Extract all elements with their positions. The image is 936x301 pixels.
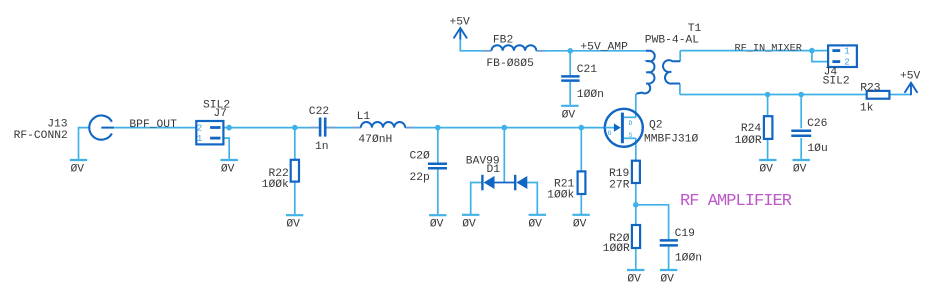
svg-text:1ØØR: 1ØØR bbox=[603, 243, 630, 255]
J7 pin 2 bar bbox=[210, 126, 220, 129]
svg-text:FB2: FB2 bbox=[493, 35, 513, 47]
transformer T1 primary winding bbox=[636, 51, 654, 94]
svg-text:1: 1 bbox=[844, 47, 849, 57]
wire Q2 drain stub bbox=[624, 116, 636, 118]
Q2 body circle bbox=[605, 109, 643, 147]
+5V left arrowhead bbox=[454, 28, 467, 38]
junction at R24 bbox=[765, 92, 771, 98]
resistor R20 bbox=[632, 225, 640, 248]
J13 body circle bbox=[89, 115, 112, 139]
power +5V symbol (right) bbox=[905, 83, 918, 95]
transistor Q2 MMBFJ310 (JFET) bbox=[605, 109, 643, 147]
wire Q2 source down to R19 bbox=[635, 138, 637, 160]
svg-text:C19: C19 bbox=[675, 228, 695, 240]
lead L1 left bbox=[352, 127, 361, 129]
Q2 gate lead bbox=[605, 127, 614, 129]
junction after J7 bbox=[226, 125, 232, 131]
wire R22 bottom bbox=[294, 182, 296, 214]
C26 top plate bbox=[791, 130, 811, 133]
T1 secondary coil tick bbox=[670, 71, 672, 73]
Q2 channel bar bbox=[621, 113, 624, 144]
svg-text:G: G bbox=[608, 130, 612, 137]
lead C22 right bbox=[327, 127, 335, 129]
svg-text:ØV: ØV bbox=[627, 274, 641, 286]
svg-text:ØV: ØV bbox=[660, 274, 674, 286]
wire R21 bottom bbox=[580, 194, 582, 214]
wire C26 top bbox=[800, 95, 802, 129]
ground D1 right bbox=[529, 214, 546, 216]
power +5V symbol (left) bbox=[454, 28, 467, 40]
D1 right diode triangle bbox=[516, 176, 527, 189]
wire +5V to FB2 bbox=[460, 39, 491, 51]
lead FB2 right bbox=[536, 50, 545, 52]
svg-text:+5V: +5V bbox=[450, 16, 471, 28]
junction at C20 bbox=[435, 125, 441, 131]
svg-text:ØV: ØV bbox=[528, 218, 542, 230]
svg-text:1ØØk: 1ØØk bbox=[547, 189, 574, 201]
resistor R23 bbox=[867, 91, 890, 99]
capacitor C21 bbox=[561, 76, 579, 80]
svg-text:RF_IN_MIXER: RF_IN_MIXER bbox=[735, 42, 802, 54]
wire R20 to ground bbox=[635, 248, 637, 269]
svg-text:C2Ø: C2Ø bbox=[410, 150, 431, 162]
svg-text:C21: C21 bbox=[577, 64, 598, 76]
svg-text:R19: R19 bbox=[609, 168, 629, 180]
J7 body bbox=[196, 121, 223, 144]
junction at R21 bbox=[579, 125, 585, 131]
ground D1 left bbox=[462, 214, 479, 216]
svg-text:ØV: ØV bbox=[793, 164, 807, 176]
wire Q2 source stub bbox=[624, 137, 636, 139]
ground C19 bbox=[660, 269, 677, 271]
svg-text:C22: C22 bbox=[309, 106, 329, 118]
wire junction to C19 bbox=[636, 205, 669, 240]
svg-text:ØV: ØV bbox=[71, 164, 85, 176]
svg-text:L1: L1 bbox=[357, 111, 371, 123]
+5V right stem bbox=[910, 83, 912, 95]
C22 left plate bbox=[319, 118, 322, 137]
wire C21 top bbox=[569, 51, 571, 75]
svg-text:MMBFJ31Ø: MMBFJ31Ø bbox=[644, 134, 698, 146]
C19 bottom plate bbox=[660, 244, 678, 247]
wire T1 secondary top riser bbox=[679, 51, 681, 62]
D1 inter-diode wire bbox=[495, 182, 516, 184]
lead C22 left bbox=[310, 127, 318, 129]
svg-text:BPF_OUT: BPF_OUT bbox=[129, 119, 177, 131]
svg-text:1ØØn: 1ØØn bbox=[675, 252, 702, 264]
svg-text:47ØnH: 47ØnH bbox=[358, 134, 392, 146]
svg-text:PWB-4-AL: PWB-4-AL bbox=[645, 35, 699, 47]
wire J13 to J7 (net BPF_OUT) bbox=[114, 127, 197, 129]
wire J4 pin2 drop bbox=[812, 51, 828, 62]
C20 top plate bbox=[428, 163, 447, 166]
wire C22 to L1 bbox=[326, 127, 361, 129]
capacitor C20 bbox=[428, 164, 447, 169]
wire J7 pin1 to ground bbox=[223, 138, 229, 159]
wire R24 top bbox=[767, 95, 769, 117]
svg-text:1: 1 bbox=[197, 134, 202, 144]
svg-text:2: 2 bbox=[844, 58, 849, 68]
svg-text:J13: J13 bbox=[47, 119, 68, 131]
connector J13 RF-CONN2 bbox=[89, 115, 114, 139]
ground R21 bbox=[572, 214, 589, 216]
resistor R21 bbox=[578, 171, 586, 194]
junction at R19/R20/C19 bbox=[633, 202, 639, 208]
ground J7 bbox=[221, 159, 238, 161]
wire D1 right to ground bbox=[527, 183, 537, 215]
+5V right arrowhead bbox=[905, 83, 918, 93]
svg-text:ØV: ØV bbox=[759, 164, 773, 176]
svg-text:SIL2: SIL2 bbox=[823, 76, 850, 88]
svg-text:22p: 22p bbox=[410, 172, 431, 184]
junction at C26 bbox=[798, 92, 804, 98]
ground C26 bbox=[793, 159, 810, 161]
junction at J4 bbox=[809, 48, 815, 54]
resistor R19 bbox=[632, 161, 640, 183]
resistor R22 bbox=[291, 160, 299, 182]
C22 right plate bbox=[324, 118, 327, 137]
wire Q2 drain up to T1 bbox=[635, 94, 637, 117]
J7 pin 1 bar bbox=[210, 137, 220, 140]
svg-text:R23: R23 bbox=[860, 82, 881, 94]
lead FB2 left bbox=[483, 50, 492, 52]
ground R24 bbox=[759, 159, 776, 161]
+5V left stem bbox=[459, 28, 461, 39]
svg-text:Q2: Q2 bbox=[649, 119, 663, 131]
svg-text:ØV: ØV bbox=[430, 219, 444, 231]
wire D1 left to ground bbox=[471, 183, 482, 215]
junction at R22 bbox=[292, 125, 298, 131]
svg-text:RF AMPLIFIER: RF AMPLIFIER bbox=[680, 192, 792, 211]
wire R24 bottom bbox=[767, 139, 769, 159]
svg-text:2: 2 bbox=[197, 123, 202, 133]
wire FB2 to T1 primary bbox=[536, 50, 646, 52]
capacitor C22 bbox=[320, 118, 325, 137]
svg-text:S: S bbox=[629, 132, 633, 139]
svg-text:R24: R24 bbox=[741, 123, 762, 135]
wire R21 top bbox=[580, 128, 582, 172]
J4 pin 2 bar bbox=[832, 60, 840, 63]
connector J4 SIL2 bbox=[828, 45, 857, 67]
svg-text:ØV: ØV bbox=[573, 218, 587, 230]
diode D1 BAV99 (dual diode) bbox=[482, 175, 527, 191]
svg-text:1k: 1k bbox=[860, 102, 874, 114]
D1 right diode cathode bar bbox=[514, 175, 516, 191]
svg-text:1Øu: 1Øu bbox=[807, 143, 827, 155]
wire J13 to ground bbox=[79, 128, 90, 159]
ground J13 bbox=[70, 159, 87, 161]
svg-text:D1: D1 bbox=[487, 164, 501, 176]
D1 left diode triangle bbox=[484, 176, 495, 189]
resistor R24 bbox=[764, 116, 773, 139]
svg-text:27R: 27R bbox=[609, 179, 630, 191]
svg-text:J7: J7 bbox=[213, 108, 227, 120]
wire C19 to ground bbox=[668, 247, 670, 269]
wire T1 secondary to J4 (net RF_IN_MIXER) bbox=[680, 50, 828, 52]
ground R20 bbox=[627, 269, 644, 271]
svg-text:1ØØk: 1ØØk bbox=[262, 179, 289, 191]
junction at D1 bbox=[502, 125, 508, 131]
svg-text:RF-CONN2: RF-CONN2 bbox=[14, 130, 68, 142]
svg-text:ØV: ØV bbox=[221, 164, 235, 176]
svg-text:ØV: ØV bbox=[562, 109, 576, 121]
ground R22 bbox=[286, 214, 303, 216]
svg-text:ØV: ØV bbox=[286, 219, 300, 231]
ground C21 bbox=[561, 105, 578, 107]
J13 center pin stub bbox=[101, 127, 114, 129]
junction at C21 bbox=[567, 48, 573, 54]
Q2 gate arrow bbox=[614, 123, 621, 131]
wire T1 secondary bottom to R23 bbox=[680, 94, 867, 96]
C26 bottom plate bbox=[791, 134, 811, 137]
transformer T1 secondary winding bbox=[663, 60, 680, 84]
T1 secondary coil bbox=[663, 60, 680, 84]
wire C20 bottom bbox=[437, 170, 439, 214]
D1 left diode cathode bar bbox=[481, 175, 483, 191]
svg-text:FB-Ø8Ø5: FB-Ø8Ø5 bbox=[486, 58, 534, 70]
inductor L1 bbox=[361, 122, 405, 128]
wire R23 to +5V bbox=[889, 94, 911, 96]
wire C21 bottom bbox=[569, 82, 571, 105]
J4 body bbox=[828, 45, 857, 67]
svg-text:D: D bbox=[629, 120, 633, 127]
ferrite bead FB2 bbox=[492, 45, 537, 51]
wire C20 top bbox=[437, 128, 439, 163]
wire J7 to C22 (main rail) bbox=[223, 127, 319, 129]
T1 primary coil bbox=[636, 51, 654, 94]
svg-text:1ØØR: 1ØØR bbox=[735, 135, 762, 147]
wire C26 bottom bbox=[800, 138, 802, 159]
capacitor C19 bbox=[660, 240, 678, 245]
svg-text:ØV: ØV bbox=[462, 218, 476, 230]
J4 pin 1 bar bbox=[832, 49, 840, 52]
lead L1 right bbox=[405, 127, 413, 129]
ground C20 bbox=[429, 214, 446, 216]
C21 top plate bbox=[561, 75, 579, 78]
C21 bottom plate bbox=[561, 79, 579, 82]
T1 primary coil ticks bbox=[646, 60, 648, 62]
svg-text:1n: 1n bbox=[315, 141, 329, 153]
svg-text:C26: C26 bbox=[807, 118, 828, 130]
connector J7 SIL2 bbox=[196, 121, 223, 144]
svg-text:+5V: +5V bbox=[900, 71, 921, 83]
wire R22 top bbox=[294, 128, 296, 160]
svg-text:1ØØn: 1ØØn bbox=[577, 89, 604, 101]
C19 top plate bbox=[660, 239, 678, 242]
wire L1 to Q2 gate bbox=[405, 127, 605, 129]
C20 bottom plate bbox=[428, 167, 447, 170]
svg-text:+5V_AMP: +5V_AMP bbox=[580, 41, 628, 53]
wire T1 secondary bottom riser bbox=[679, 84, 681, 95]
svg-text:T1: T1 bbox=[688, 23, 702, 35]
wire D1 center bbox=[503, 128, 505, 183]
capacitor C26 bbox=[791, 131, 811, 136]
wire R19 to R20 bbox=[635, 183, 637, 225]
